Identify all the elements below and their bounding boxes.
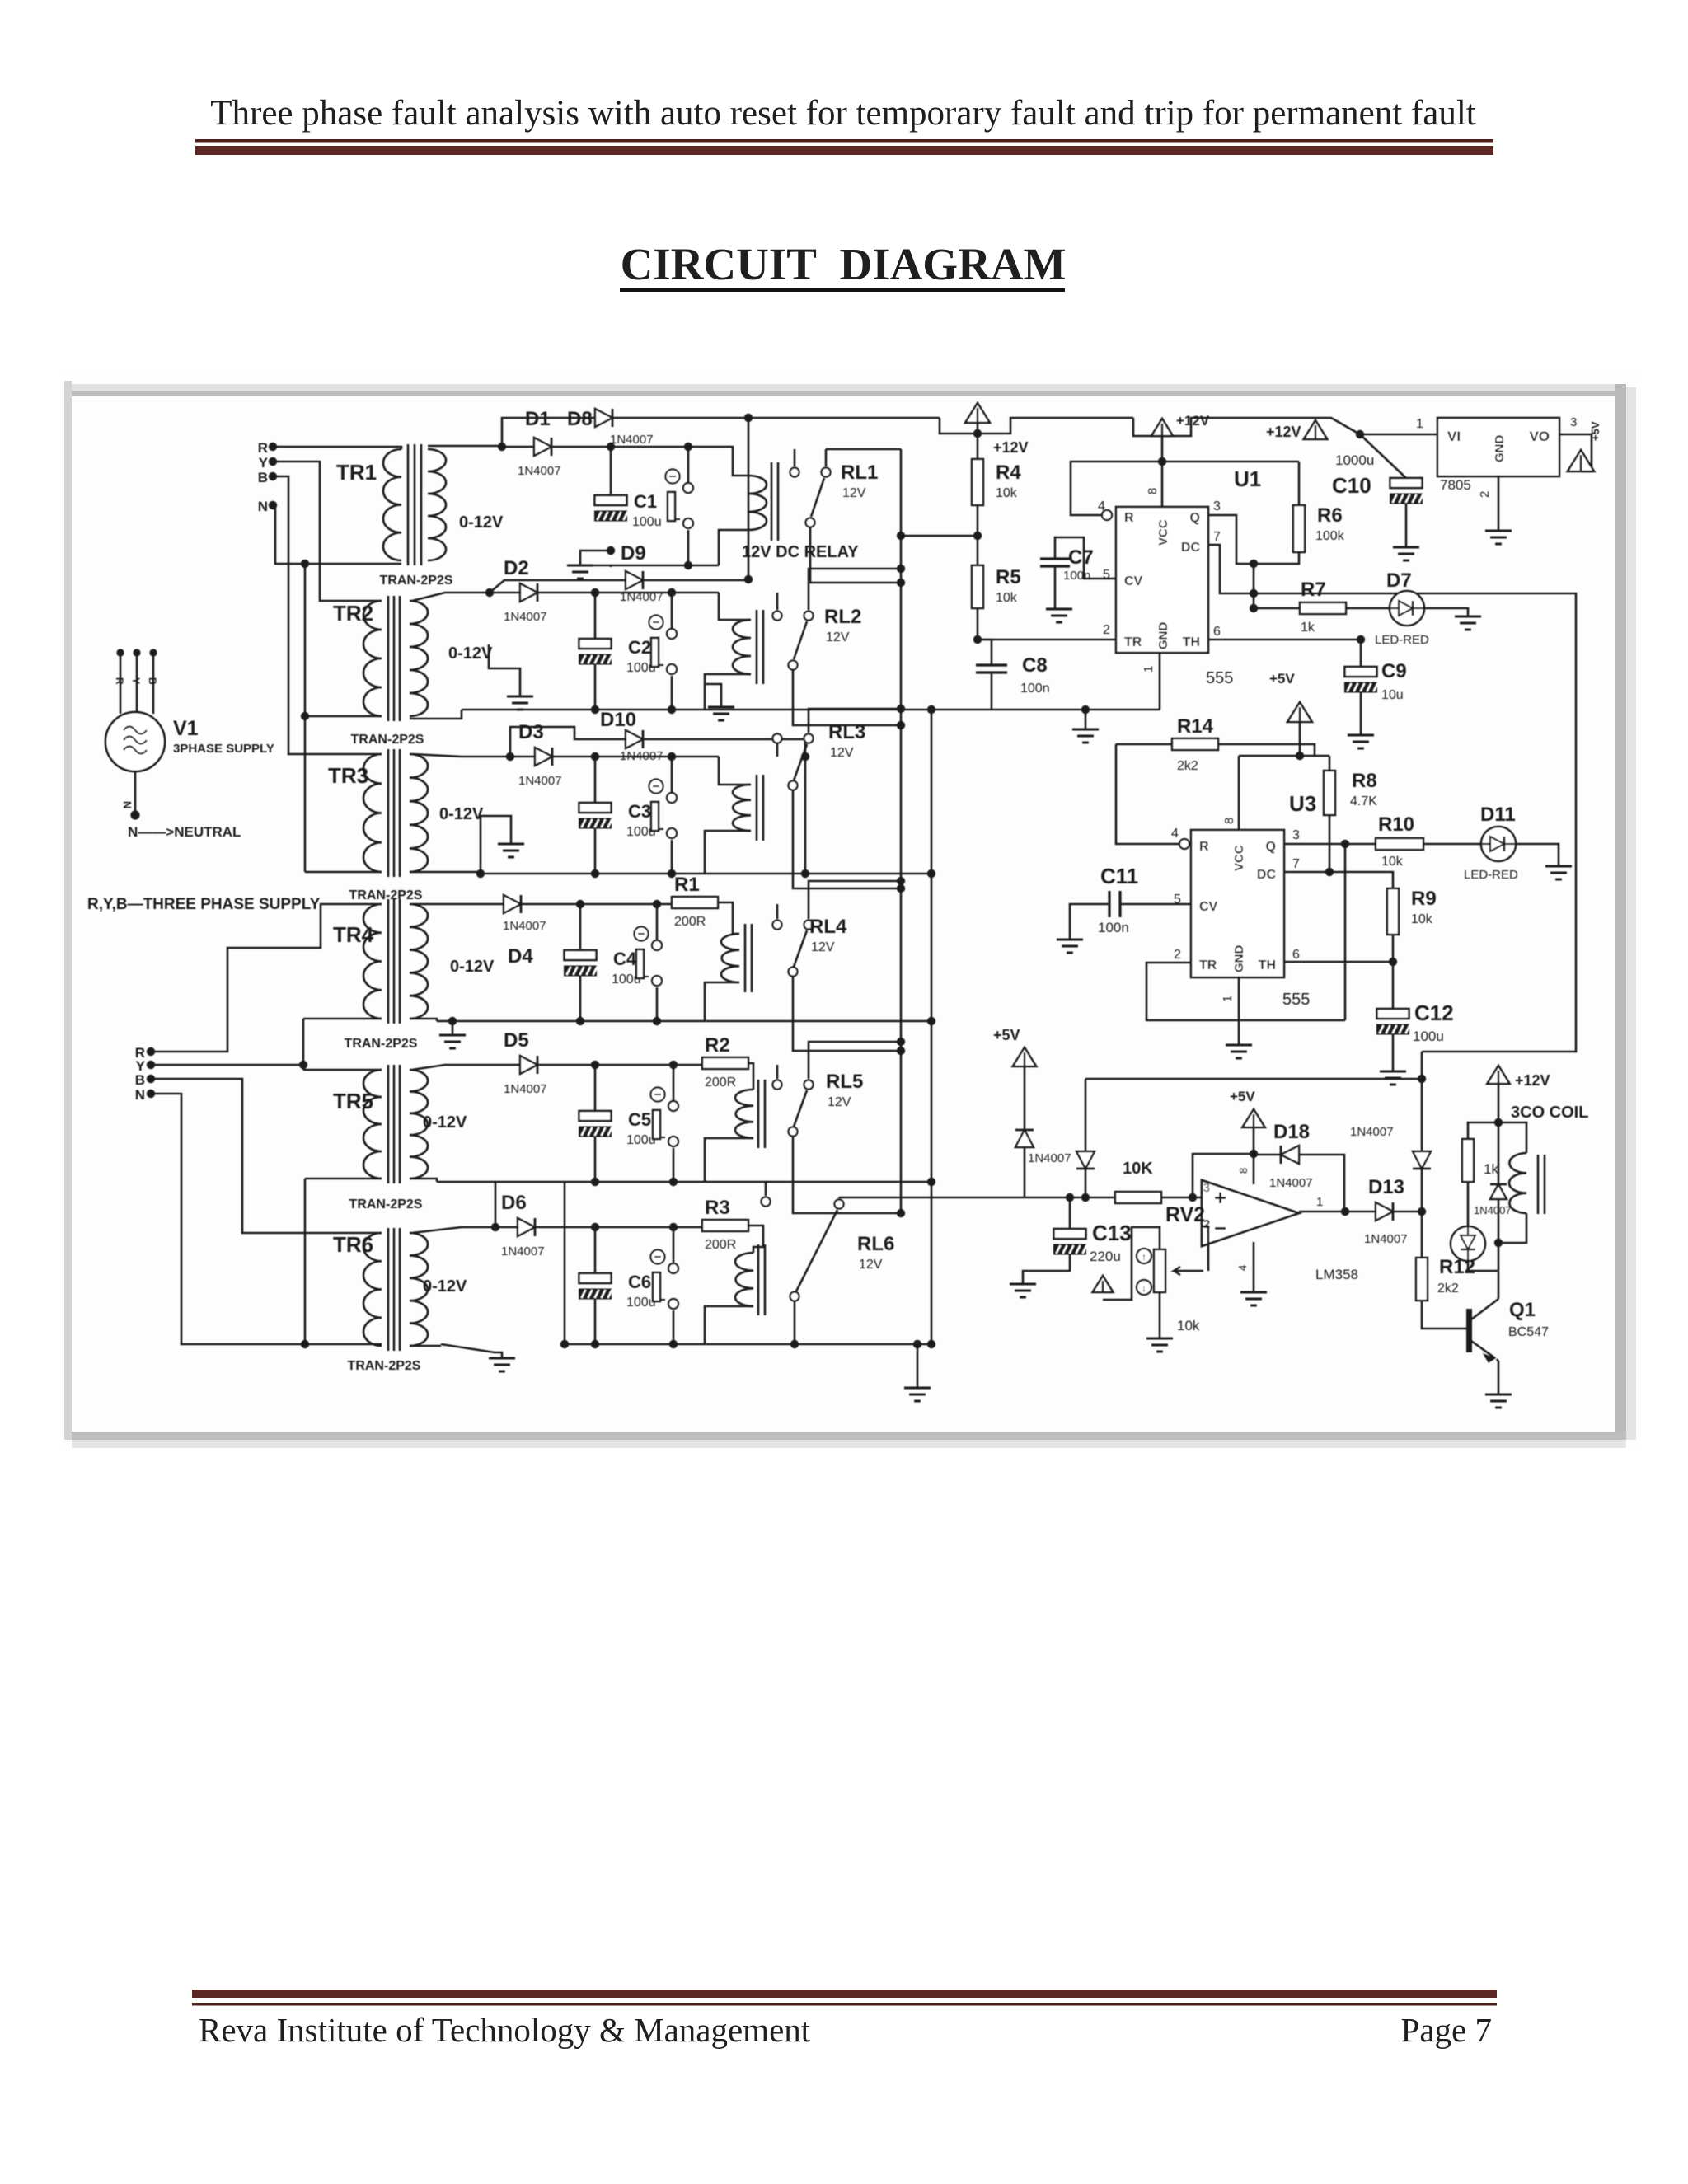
resistor R7 (1254, 607, 1300, 610)
diode D5 (520, 1056, 537, 1074)
svg-text:Three phase fault analysis wit: Three phase fault analysis with auto res… (210, 94, 1476, 133)
wire RL3 output (793, 790, 901, 888)
capacitor C5 (594, 1065, 597, 1111)
svg-text:220u: 220u (1090, 1249, 1121, 1264)
wire U3 Q out (1284, 843, 1376, 846)
junction C2 top (591, 588, 599, 597)
svg-text:R8: R8 (1352, 770, 1377, 792)
wire +5V rail (1239, 755, 1329, 757)
svg-text:R3: R3 (705, 1197, 730, 1219)
svg-text:10k: 10k (996, 591, 1018, 605)
svg-text:100n: 100n (1020, 682, 1050, 696)
svg-text:1: 1 (1416, 417, 1423, 431)
power +12V arrow 3 (1304, 420, 1328, 439)
svg-text:C13: C13 (1092, 1221, 1132, 1245)
svg-text:C5: C5 (628, 1109, 651, 1130)
ground RL2 coil (705, 684, 721, 707)
svg-text:TRAN-2P2S: TRAN-2P2S (349, 888, 423, 902)
transformer TR3 primary (363, 754, 382, 872)
svg-text:CV: CV (1199, 900, 1218, 914)
svg-text:1: 1 (1221, 996, 1235, 1002)
svg-text:D10: D10 (600, 709, 636, 731)
svg-text:RL5: RL5 (826, 1071, 863, 1093)
wire RL6 output (794, 1301, 796, 1344)
wire N to primary commons (273, 505, 401, 564)
svg-text:1N4007: 1N4007 (1028, 1151, 1071, 1165)
node N input 2 (147, 1090, 155, 1098)
wire TR6 secondary bottom (410, 1345, 441, 1347)
svg-text:TRAN-2P2S: TRAN-2P2S (349, 1197, 423, 1212)
svg-text:C2: C2 (628, 637, 651, 658)
wire N bus to TR3 primary bottom (305, 871, 382, 874)
svg-text:1N4007: 1N4007 (501, 1244, 545, 1258)
wire V1 pigtail R (120, 653, 122, 714)
diode D18 (1254, 1154, 1281, 1156)
svg-text:D6: D6 (501, 1192, 527, 1214)
wire B to TR3 primary (273, 476, 382, 754)
svg-text:C8: C8 (1022, 654, 1048, 677)
wire sense line (839, 1197, 1115, 1199)
header rule thick (195, 146, 1493, 155)
svg-text:R7: R7 (1301, 579, 1326, 601)
wire rail to 7805 (1356, 430, 1364, 438)
svg-text:R14: R14 (1177, 715, 1214, 738)
ground TR4 tap (448, 1017, 457, 1025)
power +12V arrow 2 (1151, 419, 1173, 436)
wire TR4 secondary top to D4 (412, 903, 504, 906)
svg-text:12V: 12V (826, 630, 850, 644)
resistor 10K input (1115, 1192, 1161, 1203)
led D11 (1481, 827, 1516, 861)
transformer TR4 primary (363, 904, 382, 1019)
svg-text:Q1: Q1 (1509, 1299, 1536, 1321)
svg-text:1N4007: 1N4007 (1474, 1204, 1512, 1216)
wire 7805 gnd (1498, 476, 1500, 531)
svg-text:12V DC RELAY: 12V DC RELAY (742, 543, 859, 561)
diode D9 (626, 571, 643, 589)
capacitor C1 (610, 447, 612, 495)
op-amp U2 LM358 (1202, 1180, 1299, 1246)
wire R1 to RL4 coil (718, 902, 739, 934)
svg-text:+5V: +5V (1230, 1089, 1255, 1104)
wire U3 gnd pin (1238, 977, 1240, 1045)
diode D3 (535, 748, 552, 766)
svg-text:100u: 100u (626, 1133, 656, 1147)
svg-text:TR3: TR3 (328, 763, 368, 788)
wire D4 cathode line (521, 903, 672, 906)
ground C13 (1010, 1283, 1036, 1286)
junction R4 R5 (973, 532, 982, 540)
svg-text:+12V: +12V (1515, 1072, 1550, 1089)
wire D7 cathode to ground (1424, 608, 1468, 616)
relay RL4 core (744, 924, 747, 992)
node Y input (269, 457, 277, 466)
svg-text:R4: R4 (996, 462, 1021, 484)
svg-text:D2: D2 (504, 557, 529, 579)
svg-text:D5: D5 (504, 1029, 529, 1052)
svg-text:↑: ↑ (1142, 1251, 1146, 1263)
svg-text:RL4: RL4 (809, 916, 847, 938)
svg-text:+5V: +5V (1269, 671, 1295, 687)
svg-text:12V: 12V (830, 746, 854, 760)
wire U1 gnd pin (1159, 653, 1161, 710)
wire D6 cathode line (535, 1226, 702, 1229)
svg-text:DC: DC (1257, 868, 1277, 882)
svg-text:3: 3 (1570, 415, 1577, 429)
junction button4 top (653, 900, 661, 908)
resistor R3 (702, 1220, 748, 1231)
wire opamp pin4 ground (1253, 1242, 1255, 1292)
wire +12V to R6 (1162, 461, 1299, 463)
wire D11 to ground (1516, 844, 1559, 866)
svg-text:1000u: 1000u (1335, 452, 1374, 468)
capacitor C3 (594, 757, 597, 803)
wire ch5-ch6 ground link (564, 1182, 566, 1344)
relay RL1 contact (794, 449, 796, 466)
relay RL4 coil (721, 934, 739, 982)
svg-text:10k: 10k (996, 486, 1018, 500)
junction sense bus R4 (897, 532, 905, 540)
junction C3 top (591, 752, 599, 761)
wire RV2 bottom (1159, 1292, 1161, 1338)
ground opamp (1240, 1291, 1267, 1294)
svg-text:TRAN-2P2S: TRAN-2P2S (345, 1037, 418, 1051)
wire Q1 emitter to ground (1497, 1359, 1498, 1394)
svg-text:CIRCUIT DIAGRAM: CIRCUIT DIAGRAM (621, 239, 1067, 289)
junction button3 top (668, 752, 676, 761)
svg-text:+: + (1214, 1185, 1226, 1210)
transformer TR5 secondary (410, 1070, 428, 1179)
wire opamp minus input (1202, 1226, 1208, 1271)
resistor R6 (1298, 462, 1301, 505)
wire top rail (502, 418, 940, 446)
svg-text:3: 3 (1213, 499, 1221, 513)
wire U3 DC out (1284, 872, 1393, 888)
svg-text:N——>NEUTRAL: N——>NEUTRAL (128, 824, 241, 840)
ground 7805 (1485, 530, 1512, 532)
relay RL3 coil (733, 785, 751, 831)
capacitor C10 (1360, 434, 1406, 478)
svg-text:12V: 12V (811, 940, 835, 954)
diode D10 (626, 730, 643, 748)
wire U1 TH pin (1208, 639, 1361, 641)
svg-text:N: N (135, 1087, 145, 1103)
led D7 (1390, 591, 1424, 626)
power +12V output (1487, 1066, 1509, 1084)
wire D10 drop (804, 757, 807, 874)
footer rule thin (192, 2003, 1497, 2006)
junction C1 top (607, 443, 615, 451)
wire RL6 common to sense line (838, 1197, 841, 1198)
transformer TR5 primary (363, 1070, 382, 1179)
svg-text:555: 555 (1282, 991, 1310, 1009)
diode D9 line (485, 588, 494, 597)
transformer TR2 primary (363, 601, 382, 716)
capacitor C8 (978, 640, 992, 665)
svg-text:Q: Q (1266, 840, 1276, 854)
junction +12V node (1494, 1118, 1503, 1127)
svg-text:Reva Institute of Technology &: Reva Institute of Technology & Managemen… (199, 2011, 811, 2049)
node B input 2 (147, 1075, 155, 1083)
transformer TR3 core (387, 749, 390, 877)
svg-text:2k2: 2k2 (1177, 759, 1198, 773)
svg-text:10k: 10k (1411, 912, 1433, 926)
svg-text:2: 2 (1478, 491, 1492, 498)
wire D3 cathode line (552, 756, 719, 758)
svg-text:4: 4 (1171, 827, 1179, 841)
source V1 (105, 712, 165, 771)
push button 4 (635, 927, 649, 941)
svg-text:1N4007: 1N4007 (1364, 1232, 1408, 1246)
wire Y to TR2 primary (273, 462, 382, 601)
svg-text:V1: V1 (173, 717, 199, 740)
wire opamp output (1299, 1211, 1376, 1213)
ic U1 555 box (1116, 507, 1208, 653)
ground C7 (1054, 566, 1057, 609)
wire TR1 secondary top to rail (428, 445, 502, 448)
push button 3 (649, 780, 663, 794)
wire TR5 secondary bottom (410, 1179, 437, 1182)
relay bus vertical (748, 418, 750, 579)
svg-text:RL1: RL1 (841, 462, 878, 484)
wire D18 to output (1299, 1155, 1344, 1212)
wire RL5 output (793, 1137, 901, 1213)
svg-text:↓: ↓ (1142, 1282, 1146, 1294)
svg-text:Y: Y (130, 677, 142, 684)
diode D10 line (506, 752, 514, 761)
wire TR6 secondary top to D6 (412, 1227, 518, 1233)
svg-text:GND: GND (1232, 945, 1246, 973)
wire U1 DC out (1208, 545, 1254, 593)
svg-text:CV: CV (1124, 574, 1143, 588)
relay RL5 core (757, 1080, 760, 1148)
relay RL6 core (757, 1244, 760, 1315)
diode D2 (520, 583, 537, 602)
svg-text:TRAN-2P2S: TRAN-2P2S (380, 574, 453, 588)
push button 2 (649, 616, 663, 630)
wire V1 pigtail B (152, 653, 155, 714)
resistor R8 (1329, 756, 1331, 771)
svg-text:0-12V: 0-12V (448, 644, 493, 663)
svg-text:TR2: TR2 (333, 601, 373, 626)
resistor R1 (672, 897, 718, 908)
svg-text:D9: D9 (621, 542, 646, 565)
wire R2 to TR4 primary (151, 904, 382, 1052)
svg-text:4.7K: 4.7K (1350, 794, 1377, 808)
svg-text:7805: 7805 (1440, 477, 1471, 493)
wire RL3 common (809, 709, 901, 715)
push button 1 (666, 470, 680, 484)
svg-text:2k2: 2k2 (1437, 1282, 1459, 1296)
transformer TR2 core (387, 596, 390, 721)
svg-text:−: − (1214, 1216, 1226, 1240)
junction button1 top (684, 443, 692, 451)
ground TR3 tap (481, 816, 511, 844)
resistor R14 (1116, 743, 1172, 746)
wire bus to R4/R5 junction (901, 535, 978, 537)
svg-text:200R: 200R (674, 915, 706, 929)
wire 7805 output (1559, 434, 1592, 471)
svg-text:4: 4 (1236, 1265, 1249, 1271)
svg-text:Page 7: Page 7 (1401, 2011, 1492, 2049)
transformer TR5 core (387, 1065, 390, 1183)
ground U3 (1226, 1044, 1252, 1047)
wire R10 to D11 (1423, 843, 1481, 846)
svg-text:R: R (258, 440, 268, 456)
ground bus symbol (913, 1340, 921, 1348)
wire ground rail under U1 (931, 709, 1160, 711)
wire channel3 bottom (481, 873, 931, 875)
wire RL5 common (809, 1042, 901, 1062)
svg-text:BC547: BC547 (1508, 1325, 1549, 1339)
svg-text:2: 2 (1174, 948, 1181, 962)
svg-text:200R: 200R (705, 1076, 736, 1090)
wire to RL1 coil (688, 447, 748, 476)
relay RL4 contact (776, 904, 779, 919)
wire R to TR1 primary (273, 447, 401, 449)
transformer TR1 primary (383, 449, 401, 560)
svg-text:100u: 100u (626, 1296, 656, 1310)
svg-text:DC: DC (1181, 541, 1201, 555)
wire RV2 top to +5V (1103, 1227, 1160, 1300)
svg-text:+5V: +5V (1589, 421, 1601, 441)
wire U1 Q out (1208, 515, 1254, 564)
capacitor C12 (1392, 962, 1395, 1009)
ground U1 (1085, 710, 1087, 729)
wire V1 neutral (134, 771, 137, 815)
diode D6 (518, 1218, 535, 1236)
ground Q1 (1485, 1394, 1512, 1396)
wire RL2 output (793, 670, 901, 725)
resistor R2 (702, 1057, 748, 1069)
wire TR2 secondary bottom (410, 710, 462, 719)
svg-text:100k: 100k (1315, 529, 1345, 543)
svg-text:10K: 10K (1123, 1160, 1153, 1178)
svg-text:N: N (121, 801, 134, 808)
transformer TR6 core (387, 1228, 390, 1351)
junction N bus TR2 (301, 712, 309, 720)
relay RL2 core (756, 610, 758, 684)
svg-text:1N4007: 1N4007 (518, 464, 561, 478)
ground C11 (1057, 939, 1083, 941)
wire ch5 bottom to ch6 line (495, 1182, 497, 1227)
push button 5 (651, 1088, 665, 1102)
diode D1 (498, 443, 506, 451)
relay RL3 contact (776, 733, 779, 757)
svg-text:TR5: TR5 (333, 1089, 373, 1113)
node R input (269, 443, 277, 451)
wire RL4 output (793, 977, 901, 1051)
wire channel2 bottom (462, 709, 931, 711)
svg-text:C12: C12 (1414, 1001, 1454, 1025)
svg-text:0-12V: 0-12V (423, 1277, 467, 1296)
capacitor C7 (1055, 537, 1116, 579)
relay 3CO core (1537, 1155, 1540, 1214)
svg-text:Q: Q (1190, 511, 1200, 525)
wire RL1 output (810, 527, 901, 583)
svg-text:TH: TH (1183, 635, 1200, 649)
svg-text:TR1: TR1 (336, 460, 377, 485)
transformer TR1 core (407, 444, 410, 565)
svg-text:2: 2 (1203, 1217, 1210, 1231)
capacitor C2 (594, 593, 597, 639)
diode D13 (1376, 1202, 1393, 1221)
wire V1 pigtail Y (136, 653, 138, 712)
svg-text:6: 6 (1292, 948, 1300, 962)
wire R4 to R5 (977, 505, 979, 565)
schematic image frame (62, 373, 1640, 1452)
transformer TR1 secondary (428, 449, 446, 560)
svg-text:N: N (258, 499, 268, 514)
wire RL1 common to bus (826, 448, 901, 451)
wire ground bus (931, 710, 933, 1344)
wire D5 cathode line (537, 1064, 702, 1066)
svg-text:D4: D4 (508, 945, 533, 968)
svg-text:B: B (258, 470, 268, 485)
svg-text:10k: 10k (1381, 855, 1404, 869)
junction button2 top (668, 588, 676, 597)
relay coil 3CO (1498, 1122, 1526, 1153)
node B input (269, 472, 277, 480)
ground D7 (1455, 616, 1481, 618)
svg-text:1: 1 (1316, 1195, 1323, 1209)
wire R12 to Q1 base (1422, 1301, 1468, 1329)
svg-text:R6: R6 (1317, 504, 1343, 527)
svg-text:Y: Y (259, 455, 269, 471)
led indicator (1467, 1182, 1470, 1226)
svg-text:LED-RED: LED-RED (1464, 868, 1518, 882)
wire R2 to RL5 coil (748, 1063, 753, 1090)
power +5V RV2 (1093, 1276, 1114, 1292)
svg-text:VO: VO (1529, 429, 1550, 444)
wire R5 to TR pin (978, 608, 1116, 640)
resistor R9 (1387, 888, 1399, 935)
transistor Q1 (1466, 1309, 1472, 1352)
svg-text:1N4007: 1N4007 (504, 1082, 547, 1096)
svg-text:555: 555 (1206, 669, 1233, 687)
wire ch3 elbow to RL3 coil (719, 757, 751, 785)
wire R9 bottom (1392, 935, 1395, 962)
wire Q long route (1254, 593, 1576, 1052)
relay RL2 contact (776, 593, 779, 610)
node N input (269, 501, 277, 509)
ground TR6 tap (441, 1344, 502, 1358)
svg-text:RV2: RV2 (1165, 1203, 1205, 1226)
wire clamp to Q route (1085, 1078, 1422, 1080)
svg-text:B: B (135, 1072, 145, 1088)
svg-text:RL6: RL6 (857, 1233, 894, 1255)
junction N bus top (301, 560, 309, 568)
diode clamp down (1085, 1079, 1087, 1151)
wire N bus (304, 564, 307, 872)
wire +5V to opamp supply (1193, 1154, 1254, 1197)
svg-text:10u: 10u (1381, 688, 1404, 702)
wire channel5 bottom (437, 1181, 931, 1183)
svg-text:12V: 12V (859, 1258, 883, 1272)
header rule thin (195, 139, 1493, 143)
relay RL2 coil (733, 620, 751, 674)
regulator 7805 box (1437, 418, 1559, 476)
junction C6 top (591, 1223, 599, 1231)
wire R14 to +5V rail (1218, 744, 1315, 756)
svg-text:R,Y,B—THREE PHASE SUPPLY: R,Y,B—THREE PHASE SUPPLY (87, 896, 321, 913)
svg-text:C11: C11 (1100, 864, 1138, 888)
svg-text:R1: R1 (674, 874, 700, 896)
svg-text:R: R (1199, 840, 1209, 854)
svg-text:1k: 1k (1301, 621, 1315, 635)
svg-text:0-12V: 0-12V (423, 1113, 467, 1132)
svg-text:3: 3 (1292, 828, 1300, 842)
